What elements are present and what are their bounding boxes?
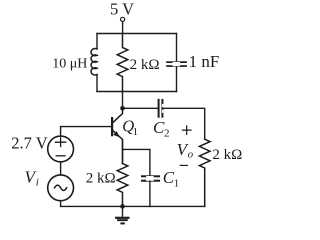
node ground junction dot	[120, 204, 125, 209]
label Vo	[177, 140, 194, 160]
wire 5V to tank top	[122, 22, 124, 34]
ground	[115, 206, 129, 224]
wire between sources	[60, 162, 62, 175]
node collector junction dot	[120, 106, 125, 111]
wire collector node to C2	[124, 107, 158, 109]
label C1	[163, 168, 180, 190]
svg-text:10 μH: 10 μH	[52, 57, 87, 72]
label minus output	[180, 164, 187, 166]
label + output	[182, 126, 191, 135]
resistor RL 2 kOhm (load)	[199, 139, 210, 206]
capacitor C2	[158, 99, 164, 118]
wire tank left edge upper	[96, 34, 98, 49]
transistor Q1 emitter lead	[113, 131, 123, 164]
wire tank right edge lower	[176, 67, 178, 92]
wire source top to base corner	[60, 127, 62, 137]
label 2 kOhm emitter	[86, 171, 116, 187]
wire tank right edge upper	[176, 34, 178, 62]
label Vi	[25, 168, 39, 189]
wire C2 to right rail corner	[163, 108, 204, 139]
svg-text:2: 2	[164, 127, 170, 139]
svg-text:1: 1	[174, 177, 180, 189]
wire Vi bottom to ground rail	[60, 201, 62, 207]
svg-text:2 kΩ: 2 kΩ	[212, 147, 242, 163]
wire tank box top edge	[97, 33, 177, 35]
wire C1 to bottom rail	[149, 181, 151, 206]
transistor Q1 emitter arrow	[113, 131, 119, 137]
label C2	[153, 118, 170, 140]
svg-text:2.7 V: 2.7 V	[11, 133, 47, 152]
capacitor C1	[141, 175, 160, 181]
label 2.7 V	[11, 133, 47, 152]
label 2 kOhm load	[212, 147, 242, 163]
source Vi circle	[48, 175, 74, 201]
wire bottom rail	[61, 205, 205, 207]
svg-text:o: o	[188, 148, 194, 160]
wire base	[61, 126, 112, 128]
wire tank bottom to collector node	[122, 92, 124, 109]
svg-text:1 nF: 1 nF	[189, 52, 220, 71]
label 1 nF	[189, 52, 220, 71]
resistor RE 2 kOhm (emitter)	[117, 164, 128, 207]
resistor R1 2 kOhm (tank)	[117, 34, 128, 92]
svg-text:1: 1	[133, 126, 139, 138]
svg-text:i: i	[36, 176, 39, 188]
wire emitter branch to C1	[123, 149, 150, 175]
wire tank left edge lower	[96, 75, 98, 92]
label 5 V	[110, 0, 134, 19]
svg-text:2 kΩ: 2 kΩ	[86, 171, 116, 187]
label - inside source	[56, 155, 65, 157]
label + inside source	[55, 138, 65, 147]
wire tank box bottom edge	[97, 91, 177, 93]
label sine inside Vi	[55, 185, 67, 190]
transistor Q1 base bar	[111, 117, 113, 136]
transistor Q1 collector lead	[113, 108, 123, 122]
terminal 5V	[121, 17, 125, 21]
label Q1	[122, 116, 138, 138]
label 2 kOhm tank	[130, 57, 160, 73]
label 10 uH	[52, 57, 87, 72]
capacitor 1 nF	[166, 61, 187, 67]
inductor L1 10 uH	[91, 49, 97, 75]
source V1 2.7 V circle	[48, 136, 74, 162]
wire emitter to resistor	[122, 140, 124, 164]
svg-text:5 V: 5 V	[110, 0, 134, 19]
svg-text:2 kΩ: 2 kΩ	[130, 57, 160, 73]
